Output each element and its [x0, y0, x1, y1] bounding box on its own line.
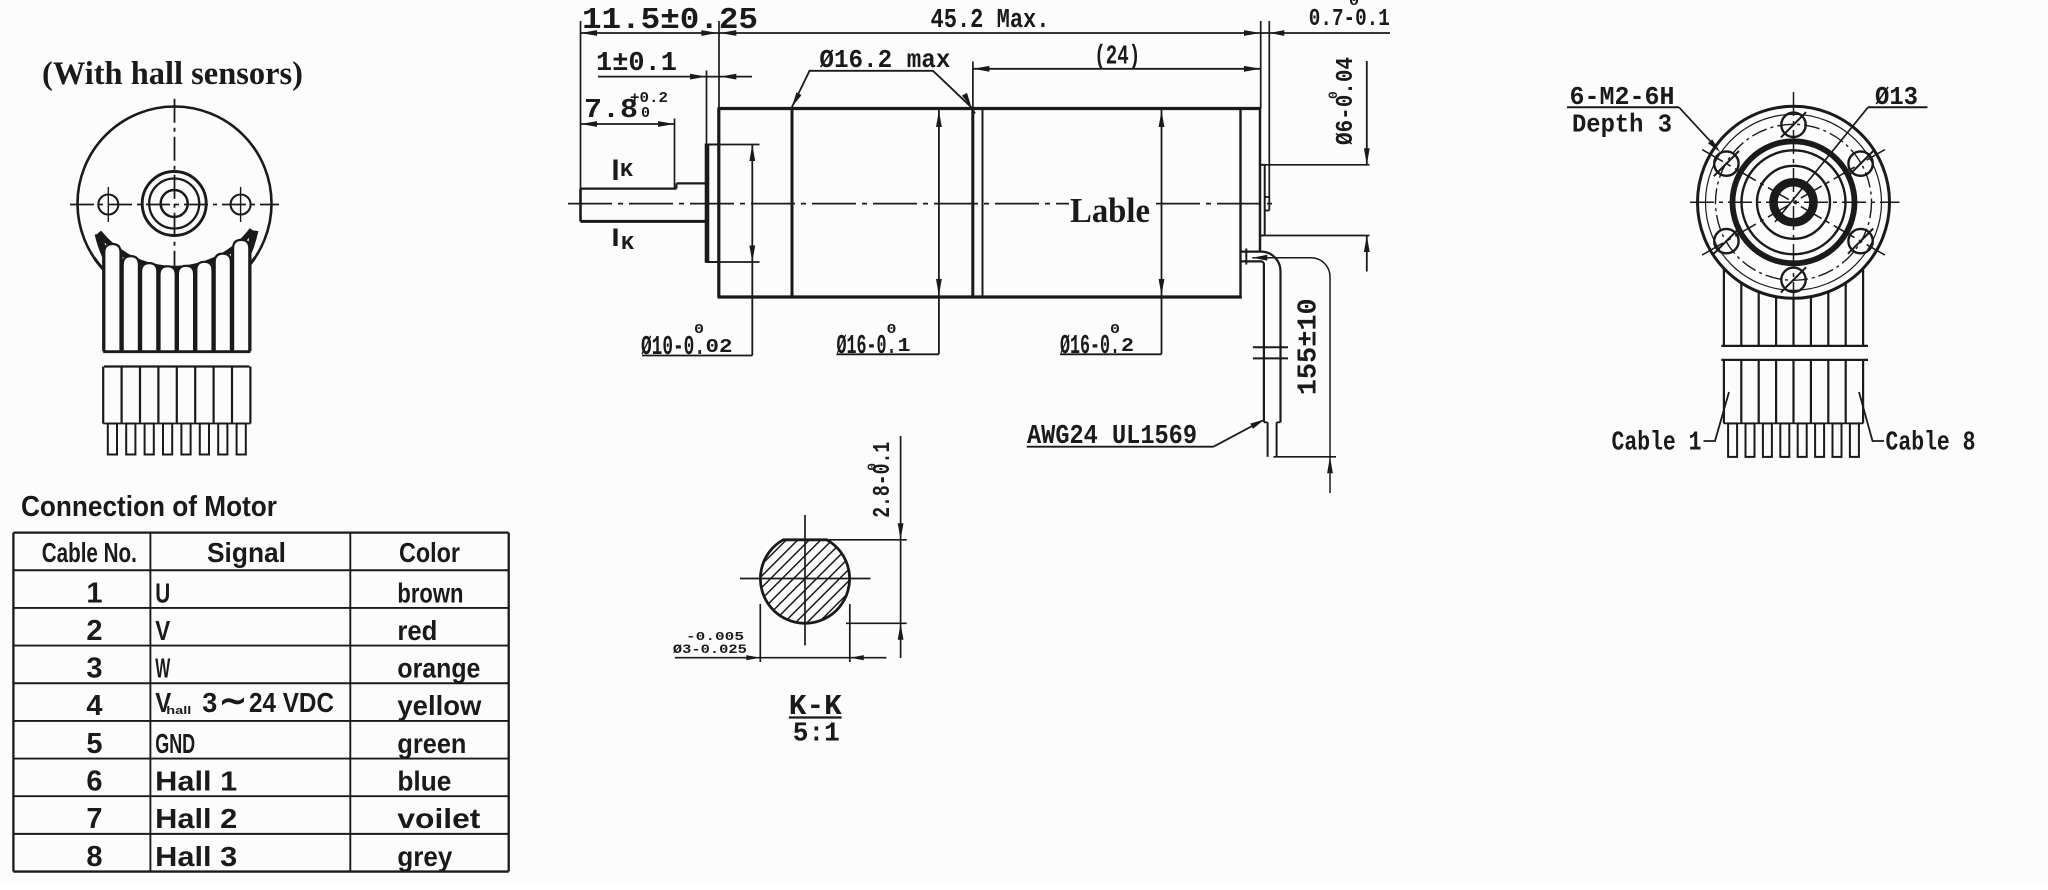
svg-text:1: 1 [898, 335, 911, 357]
svg-text:0: 0 [865, 463, 880, 471]
svg-text:green: green [397, 728, 466, 759]
svg-text:8: 8 [86, 841, 102, 873]
svg-text:Depth 3: Depth 3 [1572, 110, 1672, 140]
svg-text:0: 0 [1326, 91, 1341, 99]
svg-text:3: 3 [86, 653, 102, 685]
svg-text:Connection of Motor: Connection of Motor [21, 491, 277, 523]
svg-text:Color: Color [399, 537, 460, 568]
svg-text:0.7-0.1: 0.7-0.1 [1309, 6, 1390, 33]
svg-text:(24): (24) [1094, 43, 1140, 73]
svg-text:0: 0 [887, 322, 897, 338]
svg-text:7: 7 [86, 803, 102, 835]
svg-text:5:1: 5:1 [793, 720, 840, 750]
svg-text:blue: blue [397, 766, 451, 797]
svg-text:2: 2 [86, 615, 102, 647]
svg-text:K: K [620, 160, 634, 182]
svg-text:1: 1 [86, 577, 102, 609]
svg-text:6: 6 [86, 766, 102, 798]
svg-text:W: W [155, 653, 170, 684]
svg-text:Cable No.: Cable No. [42, 537, 137, 568]
svg-text:∼: ∼ [219, 682, 247, 720]
svg-text:Cable 8: Cable 8 [1886, 429, 1976, 459]
svg-text:Hall 1: Hall 1 [155, 766, 237, 797]
svg-text:1±0.1: 1±0.1 [596, 49, 677, 79]
svg-text:hall: hall [166, 705, 191, 717]
svg-text:0: 0 [694, 322, 704, 338]
svg-text:brown: brown [397, 577, 463, 608]
svg-text:Ø3-0.025: Ø3-0.025 [673, 642, 747, 657]
svg-text:5: 5 [86, 728, 102, 760]
svg-text:K: K [621, 233, 635, 255]
svg-text:11.5±0.25: 11.5±0.25 [582, 3, 758, 38]
svg-text:Ø16.2 max: Ø16.2 max [819, 45, 950, 75]
svg-text:3: 3 [202, 687, 217, 718]
svg-text:V: V [155, 615, 170, 646]
svg-text:Lable: Lable [1070, 191, 1150, 230]
svg-text:45.2 Max.: 45.2 Max. [931, 6, 1050, 36]
svg-text:voilet: voilet [397, 803, 480, 834]
svg-text:GND: GND [155, 728, 195, 759]
svg-text:U: U [155, 577, 170, 608]
svg-text:Ø6-0.04: Ø6-0.04 [1333, 57, 1360, 145]
svg-text:0: 0 [641, 105, 650, 122]
svg-text:Signal: Signal [207, 537, 286, 568]
svg-text:24 VDC: 24 VDC [249, 687, 334, 718]
svg-text:Cable 1: Cable 1 [1612, 429, 1702, 459]
svg-text:(With hall sensors): (With hall sensors) [42, 56, 303, 92]
svg-text:02: 02 [706, 336, 733, 358]
svg-text:Hall 2: Hall 2 [155, 803, 237, 834]
svg-text:2: 2 [1121, 335, 1134, 357]
svg-text:155±10: 155±10 [1295, 298, 1325, 395]
svg-text:2.8-0.1: 2.8-0.1 [870, 442, 897, 518]
svg-text:0: 0 [1349, 0, 1359, 10]
svg-text:grey: grey [397, 841, 452, 872]
svg-text:Hall 3: Hall 3 [155, 841, 237, 872]
svg-text:yellow: yellow [397, 690, 481, 721]
svg-text:orange: orange [397, 653, 480, 684]
svg-text:4: 4 [86, 690, 102, 722]
svg-text:red: red [397, 615, 437, 646]
svg-text:0: 0 [1110, 322, 1120, 338]
